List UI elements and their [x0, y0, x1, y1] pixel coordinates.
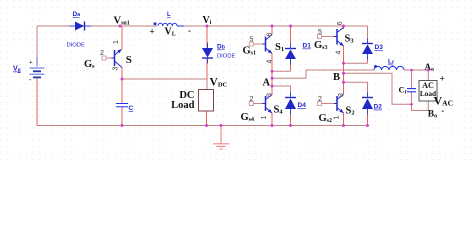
svg-text:L: L [167, 12, 171, 18]
wire Db leads [206, 26, 208, 79]
wire Cf bottom stub [411, 92, 413, 104]
svg-text:1: 1 [261, 116, 268, 120]
svg-text:DIODE: DIODE [217, 54, 235, 60]
capacitor C [116, 104, 128, 107]
svg-text:+: + [440, 75, 445, 85]
junction D1 top bus [289, 25, 292, 28]
svg-text:3: 3 [267, 93, 274, 97]
svg-text:DIODE: DIODE [67, 43, 85, 49]
junction D4 bottom bus [289, 124, 292, 127]
capacitor Cf [407, 89, 416, 92]
junction Cf top [410, 69, 413, 72]
svg-text:Load: Load [171, 100, 195, 111]
AC load box [419, 81, 437, 102]
junction node A [271, 77, 274, 80]
svg-text:2: 2 [100, 50, 104, 57]
svg-text:Da: Da [73, 11, 81, 18]
junction C bottom bus [121, 124, 124, 127]
diode D1 [285, 44, 296, 65]
DC load box [199, 90, 214, 112]
wire Lf output to Ao [404, 70, 428, 81]
svg-text:S: S [126, 54, 132, 66]
junction Vi top bus [206, 25, 209, 28]
svg-text:1: 1 [113, 40, 120, 44]
wire top bus left segment [37, 25, 157, 27]
node dot Lf input [374, 65, 377, 68]
wire C capacitor leads [121, 79, 123, 126]
svg-text:2: 2 [318, 96, 322, 103]
battery Vg [29, 57, 45, 84]
svg-text:D2: D2 [374, 104, 383, 111]
junction D2 bottom bus [366, 124, 369, 127]
diode Db [202, 43, 213, 64]
svg-text:Vg: Vg [13, 66, 21, 74]
svg-text:4: 4 [336, 51, 343, 55]
svg-text:D4: D4 [298, 102, 307, 109]
wire tap A to D4 [272, 86, 291, 98]
wire node A jog to Lf rail [272, 70, 374, 78]
svg-text:2: 2 [250, 96, 254, 103]
transistor S2 [318, 95, 344, 114]
wire D2 bottom lead [367, 109, 369, 126]
svg-text:C: C [129, 105, 134, 112]
wire DC load bottom stub [206, 111, 208, 126]
svg-text:D1: D1 [303, 43, 312, 50]
transistor S4 [249, 95, 272, 114]
svg-text:5: 5 [318, 29, 322, 36]
inductor Lf [374, 66, 404, 70]
junction leg B D2 tap [342, 81, 345, 84]
ground [213, 126, 229, 150]
svg-text:Db: Db [217, 44, 225, 51]
svg-text:D3: D3 [375, 44, 384, 51]
wire tap A to D1 [272, 70, 291, 72]
wire S emitter lead lower [121, 67, 123, 79]
junction S emitter VDC rail [121, 78, 124, 81]
junction S2 emitter bottom bus [342, 124, 345, 127]
wire Cf top stub [411, 70, 413, 88]
wire bottom bus [37, 125, 368, 127]
inductor L [158, 23, 184, 26]
junction S3 collector top bus [342, 25, 345, 28]
junction Vsn1 top bus [119, 25, 122, 28]
svg-text:5: 5 [250, 37, 254, 44]
wire leg A verticals [271, 26, 273, 126]
junction S4 emitter bottom bus [271, 124, 274, 127]
diode D2 [362, 93, 373, 115]
wire tap B to D3 [344, 62, 368, 64]
svg-text:-: - [188, 26, 191, 36]
wire leg B verticals [343, 26, 345, 126]
node dot L input [154, 22, 157, 25]
svg-text:+: + [150, 27, 155, 37]
wire mid rail VDC [122, 79, 207, 90]
wire battery top lead [36, 26, 38, 57]
junction leg A D4 tap [271, 85, 274, 88]
wire D4 bottom lead [290, 109, 292, 126]
junction DC load bottom bus [205, 124, 208, 127]
diode Da [69, 22, 91, 31]
junction Cf bottom [410, 103, 413, 106]
svg-text:3: 3 [113, 67, 120, 71]
svg-text:6: 6 [267, 33, 274, 37]
svg-text:3: 3 [338, 93, 345, 97]
junction leg A D1 tap [271, 70, 274, 73]
diode D3 [362, 39, 373, 60]
wire top bus right segment [184, 25, 368, 27]
wire D3 bottom lead [367, 54, 369, 63]
wire node B rail to Bo [344, 73, 429, 110]
svg-text:-: - [441, 106, 444, 116]
transistor S3 [318, 28, 344, 47]
wire S collector lead upper [121, 26, 123, 50]
junction S1 collector top bus [271, 25, 274, 28]
svg-text:1: 1 [334, 116, 341, 120]
junction leg B D3 tap [342, 62, 345, 65]
svg-text:4: 4 [267, 60, 274, 64]
junction Ao corner [427, 69, 430, 72]
transistor S [102, 49, 122, 67]
transistor S1 [249, 35, 272, 54]
wire D3 top lead from bus corner [367, 26, 369, 44]
wire D1 leads [290, 26, 292, 71]
diode D4 [285, 93, 296, 115]
svg-text:B: B [333, 72, 340, 83]
wire tap B to D2 [344, 82, 368, 97]
junction node B [342, 72, 345, 75]
svg-text:+: + [29, 59, 33, 66]
svg-text:A: A [263, 78, 271, 89]
wire battery bottom lead [36, 78, 38, 126]
junction ground bottom bus [220, 124, 223, 127]
svg-text:Lf: Lf [388, 59, 394, 67]
